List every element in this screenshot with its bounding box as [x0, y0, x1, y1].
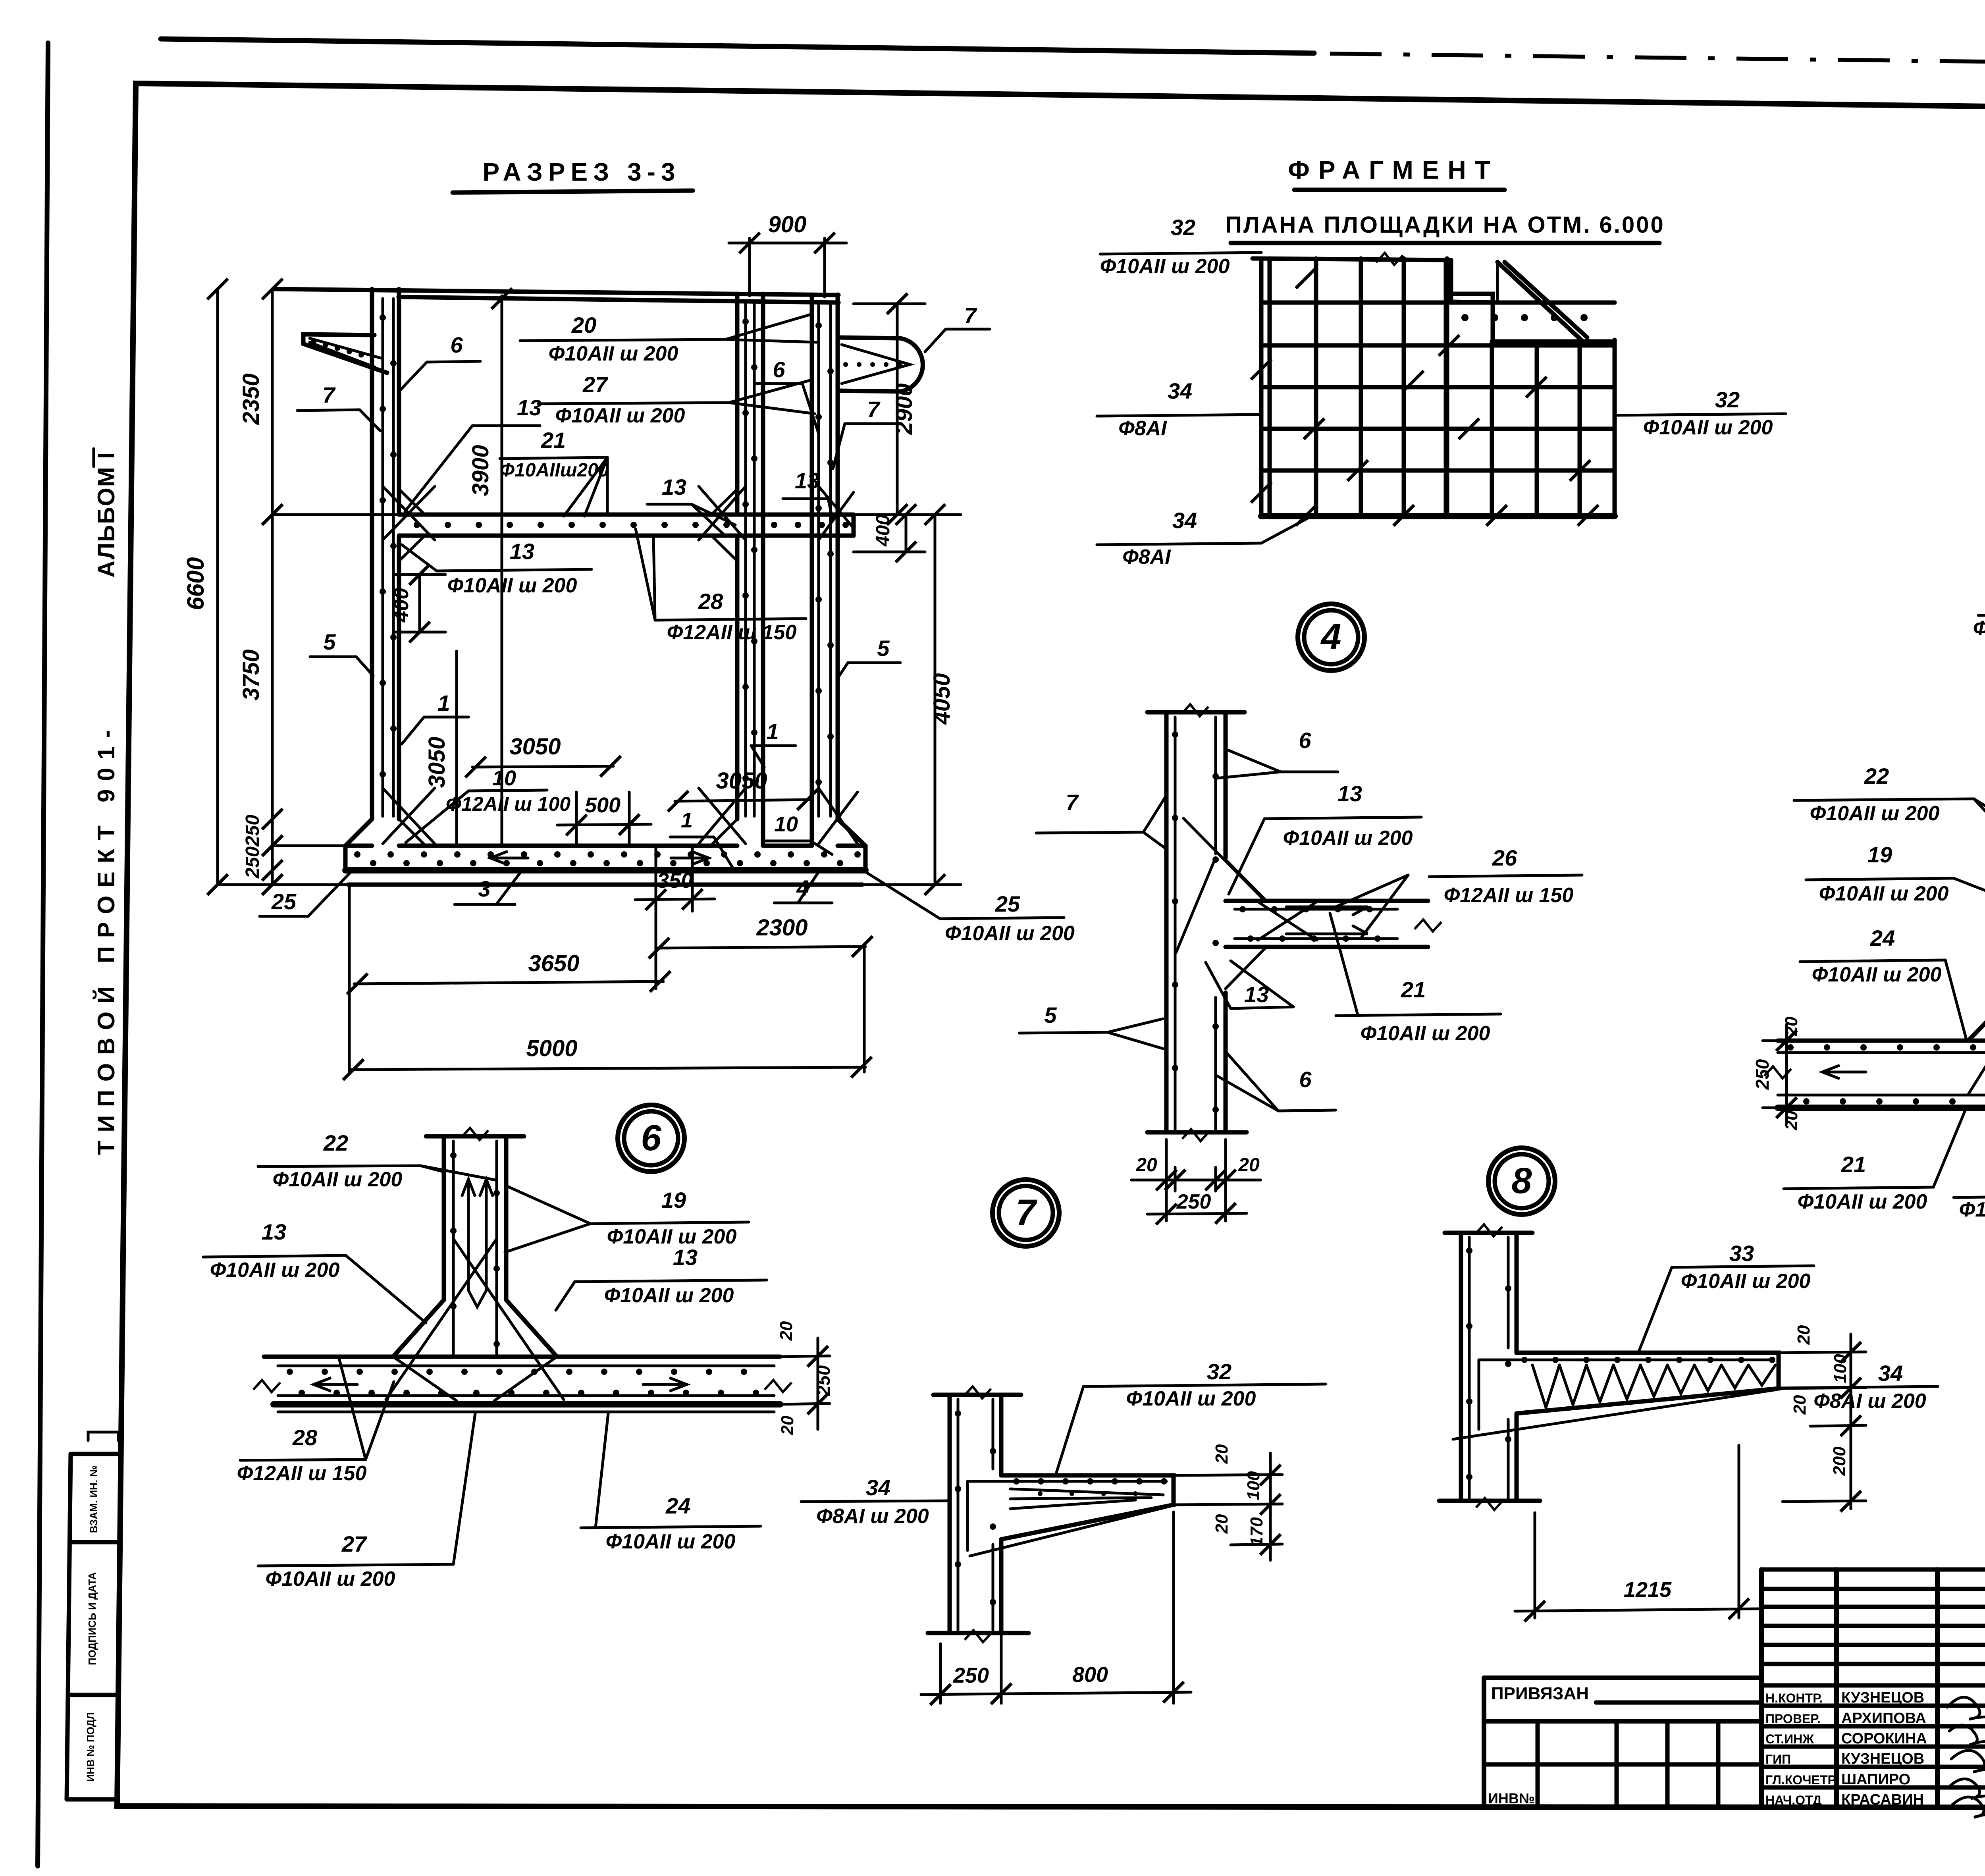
svg-text:ИНВ № ПОДЛ: ИНВ № ПОДЛ — [85, 1712, 96, 1782]
svg-text:ПЛАНА ПЛОЩАДКИ НА ОТМ. 6.000: ПЛАНА ПЛОЩАДКИ НА ОТМ. 6.000 — [1225, 212, 1665, 238]
svg-text:32: 32 — [1715, 387, 1740, 412]
svg-text:Ф10АII ш 200: Ф10АII ш 200 — [945, 922, 1075, 945]
svg-text:Ф10АII ш 200: Ф10АII ш 200 — [1973, 617, 1985, 640]
node6 hook bar with arrows — [468, 1183, 486, 1290]
svg-text:250: 250 — [1752, 1059, 1773, 1090]
random tick marks on grid — [1296, 268, 1316, 288]
node 4 circle — [1298, 604, 1364, 671]
dim line 3050 vertical — [455, 651, 458, 845]
svg-text:Ф12АII ш 150: Ф12АII ш 150 — [1444, 884, 1574, 907]
svg-text:20: 20 — [1782, 1016, 1801, 1036]
svg-text:3050: 3050 — [509, 734, 561, 760]
plan break mark top — [1376, 253, 1403, 265]
svg-text:Ф8АI ш 200: Ф8АI ш 200 — [1813, 1390, 1926, 1413]
node8 cantilever slab tapered — [1517, 1353, 1779, 1413]
svg-text:32: 32 — [1171, 215, 1195, 240]
node8 dim 1215 — [1534, 1513, 1536, 1618]
node 8 circle — [1488, 1148, 1555, 1215]
node7 wall — [948, 1395, 952, 1633]
section: bottom slab and footing — [345, 844, 372, 848]
svg-text:1: 1 — [437, 690, 450, 715]
svg-text:200: 200 — [1830, 1446, 1849, 1476]
notch outline in plan — [1451, 294, 1612, 341]
node4 wall top/bottom caps — [1147, 710, 1245, 715]
dim line 3900 — [501, 296, 503, 845]
svg-text:28: 28 — [698, 589, 723, 614]
svg-text:3050: 3050 — [424, 737, 450, 788]
node6 haunches — [393, 1300, 444, 1357]
svg-text:20: 20 — [1135, 1155, 1157, 1176]
svg-text:34: 34 — [1168, 378, 1192, 403]
svg-text:27: 27 — [582, 372, 609, 397]
section: left wall — [370, 289, 374, 819]
section: intermediate slab — [399, 513, 854, 517]
svg-text:НАЧ.ОТД: НАЧ.ОТД — [1765, 1793, 1822, 1807]
X rebar at left wall base — [383, 788, 435, 844]
section: top cap lines of walls — [274, 289, 838, 295]
svg-text:6: 6 — [1299, 1067, 1312, 1092]
svg-text:900: 900 — [768, 212, 807, 237]
svg-text:СОРОКИНА: СОРОКИНА — [1841, 1730, 1927, 1747]
svg-text:26: 26 — [1492, 845, 1517, 870]
node4 slab haunches — [1226, 860, 1266, 901]
paper left edge line — [38, 43, 48, 1866]
title underline — [453, 191, 693, 193]
svg-text:2900: 2900 — [891, 383, 917, 435]
node7 top rebar with dots — [967, 1480, 1166, 1483]
X rebar crossing at left wall / slab — [383, 486, 435, 540]
node4 bottom dims 20 250 20 — [1165, 1139, 1168, 1221]
svg-text:5: 5 — [1044, 1003, 1057, 1028]
svg-text:6: 6 — [641, 1118, 661, 1158]
node4 break marks slab end — [1415, 920, 1442, 931]
svg-text:20: 20 — [1212, 1514, 1231, 1534]
node5 wall A haunches — [1968, 981, 1985, 1041]
svg-text:ШАПИРО: ШАПИРО — [1841, 1771, 1910, 1788]
svg-text:Ф10АII ш 200: Ф10АII ш 200 — [1810, 802, 1940, 825]
left attachment sub-table — [1484, 1675, 1761, 1680]
small bracket mark above stamp strip — [88, 1432, 118, 1440]
dim chain 2350/3750/250/250 — [271, 289, 274, 885]
svg-text:Ф10АII ш 200: Ф10АII ш 200 — [1798, 1190, 1927, 1213]
svg-text:Ф10АII ш 200: Ф10АII ш 200 — [1283, 827, 1413, 850]
svg-text:13: 13 — [262, 1219, 286, 1244]
dim 3050 horizontal #2 — [675, 800, 811, 801]
svg-text:25: 25 — [271, 889, 297, 914]
top scan edge line (solid part) — [161, 39, 1314, 53]
svg-text:Ф10АII ш 200: Ф10АII ш 200 — [266, 1568, 395, 1591]
svg-text:Ф10АII ш 200: Ф10АII ш 200 — [555, 404, 685, 427]
svg-text:24: 24 — [665, 1493, 690, 1518]
svg-text:5000: 5000 — [526, 1035, 577, 1061]
dim connector lines left — [272, 513, 399, 516]
section: right wall of box — [735, 294, 740, 515]
svg-text:28: 28 — [292, 1425, 318, 1450]
rebar dots in notch area — [1461, 314, 1588, 321]
section: upper-left cantilever bracket — [303, 334, 387, 373]
dim 4050 — [934, 515, 937, 885]
svg-text:19: 19 — [661, 1188, 686, 1213]
node4 slab — [1226, 899, 1428, 903]
svg-text:Ф10АII ш 200: Ф10АII ш 200 — [210, 1259, 340, 1282]
plan grid outline — [1253, 258, 1451, 260]
dim 2300 — [656, 947, 865, 948]
svg-text:6: 6 — [773, 357, 785, 382]
svg-text:25: 25 — [995, 891, 1020, 916]
svg-text:800: 800 — [1072, 1663, 1108, 1687]
svg-text:Н.КОНТР.: Н.КОНТР. — [1765, 1691, 1823, 1705]
svg-text:400: 400 — [390, 588, 413, 623]
dim 2900 — [896, 304, 899, 515]
svg-text:2300: 2300 — [756, 915, 807, 941]
svg-text:АЛЬБОМ I: АЛЬБОМ I — [93, 451, 119, 578]
svg-text:250: 250 — [813, 1365, 834, 1396]
svg-text:350: 350 — [657, 869, 693, 893]
node7 right dims 20/100/20/170 — [1174, 1475, 1282, 1475]
svg-text:5: 5 — [323, 629, 336, 654]
svg-text:27: 27 — [341, 1531, 368, 1556]
node6 wall — [442, 1136, 446, 1300]
svg-text:20: 20 — [571, 312, 596, 337]
node4 wall — [1164, 712, 1169, 1132]
svg-text:ПРИВЯЗАН: ПРИВЯЗАН — [1491, 1684, 1589, 1703]
slab direction arrows — [494, 857, 528, 860]
node5 slab — [1778, 1039, 1985, 1043]
node5 slab arrows — [1826, 1071, 1866, 1074]
X rebar at far wall base — [819, 788, 858, 844]
svg-text:Ф12АII ш 100: Ф12АII ш 100 — [446, 793, 570, 815]
svg-text:Ф12АII ш 150: Ф12АII ш 150 — [237, 1462, 367, 1485]
svg-text:КУЗНЕЦОВ: КУЗНЕЦОВ — [1841, 1689, 1924, 1706]
node6 slab arrows — [318, 1383, 357, 1386]
svg-text:7: 7 — [322, 382, 336, 407]
svg-text:КРАСАВИН: КРАСАВИН — [1841, 1791, 1924, 1808]
svg-text:13: 13 — [795, 468, 819, 493]
dim 400 right — [905, 515, 908, 552]
svg-text:Ф10АII ш 200: Ф10АII ш 200 — [606, 1530, 736, 1553]
svg-text:ГИП: ГИП — [1765, 1752, 1791, 1766]
svg-text:21: 21 — [1841, 1152, 1866, 1177]
signature scribbles — [1947, 1697, 1985, 1736]
svg-text:Ф10АII ш 200: Ф10АII ш 200 — [1643, 416, 1773, 439]
node8 right dims 20/100/20/200 — [1779, 1352, 1866, 1353]
svg-text:250: 250 — [953, 1664, 989, 1687]
svg-text:Ф12АII ш 150: Ф12АII ш 150 — [667, 621, 797, 644]
svg-text:СТ.ИНЖ: СТ.ИНЖ — [1765, 1732, 1814, 1746]
dim 3050 horizontal #1 — [472, 766, 613, 767]
svg-text:21: 21 — [541, 428, 566, 453]
svg-text:13: 13 — [517, 395, 542, 420]
svg-text:АРХИПОВА: АРХИПОВА — [1841, 1710, 1926, 1727]
svg-text:6: 6 — [450, 332, 463, 357]
node8 hook bar down left face — [1478, 1360, 1480, 1429]
node4 X rebar crossings — [1258, 902, 1317, 940]
svg-text:250: 250 — [242, 846, 263, 879]
svg-text:13: 13 — [662, 474, 686, 499]
svg-text:24: 24 — [1870, 925, 1895, 951]
svg-text:20: 20 — [778, 1415, 797, 1435]
svg-text:6600: 6600 — [182, 557, 209, 610]
svg-text:8: 8 — [1511, 1161, 1532, 1201]
node7 fan of bars in slab — [1010, 1489, 1163, 1495]
svg-text:6: 6 — [1299, 728, 1311, 753]
svg-text:Ф10АII ш 200: Ф10АII ш 200 — [1100, 255, 1230, 278]
svg-text:Ф8АI: Ф8АI — [1118, 417, 1167, 440]
title underline 1 — [1294, 188, 1505, 192]
svg-text:20: 20 — [1212, 1444, 1231, 1464]
dim 900 at top — [748, 238, 751, 296]
svg-text:21: 21 — [1401, 977, 1426, 1002]
svg-text:1215: 1215 — [1624, 1578, 1672, 1602]
svg-text:1: 1 — [766, 719, 779, 744]
svg-text:Ф10АII ш 200: Ф10АII ш 200 — [1126, 1387, 1256, 1410]
svg-text:20: 20 — [1238, 1155, 1260, 1176]
svg-text:ГЛ.КОЧЕТР: ГЛ.КОЧЕТР — [1765, 1773, 1836, 1787]
node7 cantilever slab tapered — [1001, 1475, 1174, 1539]
svg-text:ПОДПИСЬ И ДАТА: ПОДПИСЬ И ДАТА — [86, 1572, 98, 1665]
small dim 400 at left wall below slab — [395, 573, 445, 576]
svg-text:20: 20 — [1782, 1111, 1801, 1130]
svg-text:Ф8АI: Ф8АI — [1122, 546, 1171, 569]
svg-text:7: 7 — [1066, 790, 1079, 815]
svg-text:Ф10АII ш 200: Ф10АII ш 200 — [549, 342, 678, 365]
node8 bottom bent bar — [1453, 1390, 1777, 1439]
svg-text:20: 20 — [1790, 1395, 1810, 1415]
node8 chevron shear bars — [1532, 1365, 1775, 1407]
svg-text:3750: 3750 — [238, 649, 264, 700]
dim 3650 — [354, 981, 663, 984]
node6 right dims 20/250/20 — [780, 1356, 830, 1357]
wall base chamfers — [345, 819, 372, 846]
svg-text:Ф10АII ш 200: Ф10АII ш 200 — [1681, 1270, 1811, 1293]
svg-text:20: 20 — [1794, 1325, 1813, 1345]
X rebar at right wall base — [699, 788, 746, 844]
slab rebar dots — [414, 522, 849, 528]
svg-text:33: 33 — [1729, 1241, 1754, 1266]
svg-text:ВЗАМ. ИН. №: ВЗАМ. ИН. № — [88, 1465, 100, 1533]
node7 bottom bent bar — [970, 1506, 1171, 1556]
node6 slab — [264, 1355, 780, 1359]
svg-text:4050: 4050 — [929, 673, 955, 725]
top scan edge line (dash-dot part) — [1330, 54, 1985, 69]
svg-text:19: 19 — [1867, 842, 1892, 867]
svg-text:7: 7 — [964, 303, 977, 328]
dim chain 6600 — [216, 289, 219, 885]
svg-text:400: 400 — [873, 515, 894, 547]
svg-text:10: 10 — [492, 766, 516, 790]
svg-text:3900: 3900 — [468, 445, 493, 496]
svg-text:100: 100 — [1831, 1354, 1850, 1383]
svg-text:10: 10 — [774, 812, 798, 836]
node6 X rebar crossings — [453, 1239, 564, 1400]
svg-text:7: 7 — [867, 397, 881, 422]
section: upper-right rounded cantilever — [838, 337, 923, 391]
svg-text:1: 1 — [681, 808, 693, 832]
svg-text:ФРАГМЕНТ: ФРАГМЕНТ — [1288, 156, 1499, 184]
svg-text:34: 34 — [1172, 508, 1197, 533]
dim 350 — [655, 846, 657, 911]
dim 5000 — [349, 1067, 865, 1070]
svg-text:Ф10АII ш 200: Ф10АII ш 200 — [1361, 1022, 1490, 1045]
svg-text:22: 22 — [1864, 764, 1889, 789]
node4 hooked bar ends — [1286, 907, 1368, 915]
svg-text:3650: 3650 — [528, 951, 579, 976]
svg-text:100: 100 — [1244, 1471, 1263, 1500]
svg-text:ПРОВЕР.: ПРОВЕР. — [1765, 1712, 1821, 1726]
svg-text:Ф10АII ш 200: Ф10АII ш 200 — [604, 1284, 734, 1307]
svg-text:Ф10АII ш 200: Ф10АII ш 200 — [607, 1225, 737, 1248]
node 6 circle — [618, 1105, 684, 1172]
svg-text:34: 34 — [866, 1475, 890, 1500]
svg-text:22: 22 — [323, 1130, 348, 1155]
svg-text:ИНВ№: ИНВ№ — [1488, 1790, 1535, 1807]
svg-text:Ф10АII ш 200: Ф10АII ш 200 — [273, 1168, 403, 1191]
svg-text:Ф10АII ш 200: Ф10АII ш 200 — [447, 574, 577, 597]
node8 top rebar with dots — [1479, 1359, 1771, 1361]
svg-text:13: 13 — [1337, 781, 1362, 806]
svg-text:КУЗНЕЦОВ: КУЗНЕЦОВ — [1841, 1751, 1924, 1767]
svg-text:Ф8АI ш 200: Ф8АI ш 200 — [816, 1505, 929, 1528]
svg-text:250: 250 — [1176, 1190, 1211, 1213]
stamp strip (outside frame, bottom left) — [67, 1454, 71, 1799]
plan grid vertical bars — [1314, 258, 1318, 515]
bottom slab rebar dots — [354, 851, 861, 866]
overbar of roman numeral I — [93, 449, 95, 467]
svg-text:34: 34 — [1878, 1361, 1903, 1386]
dim 500 — [557, 824, 651, 825]
svg-text:250: 250 — [242, 815, 263, 847]
X rebar crossing at right wall / slab — [699, 486, 746, 540]
title block: central signature table — [1759, 1569, 1764, 1808]
svg-text:5: 5 — [877, 636, 890, 661]
svg-text:2350: 2350 — [238, 373, 264, 425]
svg-text:13: 13 — [673, 1245, 698, 1270]
title underline 2 — [1231, 241, 1659, 245]
extra double line segments — [1261, 344, 1615, 347]
svg-text:РАЗРЕЗ 3-3: РАЗРЕЗ 3-3 — [482, 158, 680, 186]
svg-text:3: 3 — [478, 876, 490, 901]
section: far right wall — [810, 295, 814, 846]
node 7 circle — [992, 1180, 1059, 1246]
svg-text:Ф12АII ш 150: Ф12АII ш 150 — [1959, 1198, 1985, 1221]
node5 left end dims 20/250/20 — [1785, 1024, 1788, 1124]
node7 bottom dims 250 / 800 — [939, 1644, 942, 1703]
svg-text:32: 32 — [1207, 1359, 1231, 1384]
node7 hook bar down left face — [966, 1481, 969, 1550]
svg-text:500: 500 — [585, 793, 621, 817]
svg-text:Ф10АII ш 200: Ф10АII ш 200 — [1819, 882, 1949, 905]
svg-text:13: 13 — [510, 539, 534, 564]
X rebar crossing at far wall / slab — [819, 486, 854, 528]
node8 wall — [1459, 1233, 1463, 1501]
svg-text:20: 20 — [777, 1321, 796, 1341]
svg-text:3050: 3050 — [716, 768, 767, 794]
plan grid horizontal bars — [1262, 301, 1615, 305]
svg-text:Ф10АII ш 200: Ф10АII ш 200 — [1812, 963, 1942, 986]
svg-text:7: 7 — [1016, 1192, 1037, 1233]
svg-text:4: 4 — [1320, 617, 1341, 657]
slab haunch fillets — [399, 489, 425, 515]
svg-text:170: 170 — [1247, 1517, 1266, 1546]
